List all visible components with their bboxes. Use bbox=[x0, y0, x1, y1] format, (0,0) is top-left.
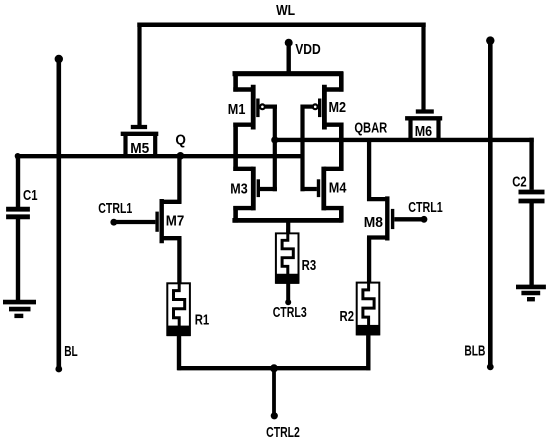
transistor M5 gate bar bbox=[131, 125, 147, 129]
svg-text:BLB: BLB bbox=[464, 343, 485, 359]
svg-text:M4: M4 bbox=[329, 180, 347, 196]
wire WL right vertical to M6 gate bbox=[421, 23, 425, 114]
svg-text:R1: R1 bbox=[195, 313, 210, 329]
wire R3 stem bbox=[286, 218, 290, 234]
wire right rail lower bbox=[339, 206, 344, 223]
wire WL left vertical to M5 gate bbox=[137, 23, 141, 128]
svg-text:C1: C1 bbox=[23, 188, 38, 204]
ground C2 bar3 bbox=[527, 297, 535, 301]
wire M5 left lead bbox=[123, 134, 127, 156]
wire M8 bottom lead bbox=[367, 235, 387, 239]
svg-text:Q: Q bbox=[175, 132, 186, 148]
wire R3 bottom lead bbox=[286, 283, 290, 302]
wire BL vertical bbox=[56, 59, 61, 369]
transistor M1 channel bbox=[251, 85, 256, 130]
wire WL horizontal bbox=[137, 22, 425, 27]
wire M8 source vertical to R2 bbox=[367, 238, 371, 284]
wire CTRL2 stem bbox=[272, 368, 276, 415]
node CTRL2 junction dot bbox=[270, 364, 278, 372]
wire left rail lower bbox=[233, 206, 238, 223]
wire left rail mid bbox=[233, 123, 238, 172]
wire M2 source lead bbox=[324, 87, 343, 91]
wire cross-couple vertical Q-to-M2/M4 gates bbox=[300, 105, 304, 192]
wire BLB vertical bbox=[488, 41, 493, 367]
wire M4 top lead bbox=[324, 167, 344, 171]
node QBAR junction dot bbox=[271, 136, 278, 143]
memristor R3 body bbox=[276, 233, 299, 283]
transistor M2 gate bar bbox=[318, 99, 321, 118]
wire M8 top lead bbox=[367, 197, 387, 201]
node CTRL1 left dot bbox=[110, 219, 117, 226]
wire M3 bottom lead bbox=[233, 206, 253, 210]
transistor M4 gate bar bbox=[317, 179, 320, 197]
svg-text:M5: M5 bbox=[130, 141, 149, 157]
wire C2 ground lead bbox=[529, 201, 533, 286]
svg-text:CTRL2: CTRL2 bbox=[266, 425, 300, 441]
svg-text:R2: R2 bbox=[340, 309, 355, 325]
transistor M6 channel bbox=[405, 116, 442, 120]
wire M4 bottom lead bbox=[324, 206, 344, 210]
transistor M8 gate bar bbox=[391, 209, 394, 229]
svg-text:M7: M7 bbox=[166, 214, 185, 230]
transistor M6 gate bar bbox=[416, 109, 434, 113]
ground C1 bar2 bbox=[9, 307, 31, 312]
svg-text:M2: M2 bbox=[329, 100, 347, 116]
wire left rail upper bbox=[233, 72, 238, 92]
node BL top dot bbox=[55, 55, 63, 63]
wire M3 top lead bbox=[233, 167, 253, 171]
capacitor C1 top plate bbox=[6, 207, 30, 212]
capacitor C2 top plate bbox=[519, 190, 545, 195]
wire M8 drain vertical from QBAR bbox=[367, 140, 371, 201]
node VDD dot bbox=[285, 39, 293, 47]
wire M7 gate lead bbox=[114, 220, 156, 224]
transistor M1 gate bubble bbox=[260, 104, 265, 109]
svg-text:CTRL3: CTRL3 bbox=[273, 305, 307, 321]
wire M7 drain vertical from Q bbox=[177, 156, 181, 203]
wire M8 gate lead bbox=[394, 217, 424, 221]
node BLB bottom dot bbox=[487, 364, 494, 371]
transistor M7 gate bar bbox=[155, 212, 158, 232]
transistor M3 gate bar bbox=[257, 179, 260, 197]
memristor R1 zigzag bbox=[174, 278, 185, 327]
wire R2 bottom vertical bbox=[366, 335, 370, 370]
svg-text:R3: R3 bbox=[302, 258, 317, 274]
ground C1 bar1 bbox=[3, 300, 36, 305]
node CTRL2 end dot bbox=[271, 412, 278, 419]
svg-text:CTRL1: CTRL1 bbox=[98, 201, 132, 217]
svg-text:M1: M1 bbox=[228, 102, 246, 118]
transistor M7 channel bbox=[159, 199, 163, 243]
wire M3 gate lead bbox=[260, 187, 277, 191]
wire C1 ground lead bbox=[16, 217, 20, 301]
transistor M8 channel bbox=[385, 196, 389, 240]
wire M2 gate lead bbox=[301, 104, 313, 108]
wire M4 gate lead bbox=[301, 187, 317, 191]
memristor R2 zigzag bbox=[363, 278, 374, 327]
ground C1 bar3 bbox=[14, 314, 23, 318]
wire M1 source lead bbox=[233, 87, 253, 91]
transistor M5 channel bbox=[121, 132, 159, 136]
wire M7 source vertical to R1 bbox=[177, 238, 181, 284]
memristor R1 body bbox=[167, 283, 190, 336]
node BL bottom dot bbox=[55, 366, 62, 373]
wire VDD stem bbox=[287, 43, 291, 76]
wire cross-couple vertical QBAR-to-M1/M3 gates bbox=[273, 105, 277, 192]
wire right rail upper bbox=[339, 72, 344, 92]
node BLB top dot bbox=[486, 36, 494, 44]
wire M2 drain lead bbox=[324, 122, 343, 126]
transistor M1 gate bar bbox=[256, 99, 259, 118]
svg-text:M8: M8 bbox=[364, 215, 383, 231]
svg-text:BL: BL bbox=[64, 344, 78, 360]
capacitor C2 bottom plate bbox=[519, 199, 545, 204]
transistor M3 channel bbox=[251, 167, 256, 211]
svg-text:C2: C2 bbox=[512, 174, 527, 190]
node Q dot bbox=[177, 152, 185, 160]
node CTRL1 right dot bbox=[421, 216, 428, 223]
wire C1 top lead bbox=[16, 154, 20, 207]
wire CTRL2 bottom line bbox=[177, 366, 370, 370]
svg-text:VDD: VDD bbox=[295, 42, 321, 58]
wire inverter bottom rail bbox=[232, 218, 342, 223]
wire M1 gate lead bbox=[265, 104, 277, 108]
svg-text:M6: M6 bbox=[415, 124, 432, 140]
memristor R2 body bbox=[356, 283, 379, 336]
svg-text:M3: M3 bbox=[230, 181, 247, 197]
wire M7 bottom lead bbox=[162, 236, 182, 240]
transistor M4 channel bbox=[321, 167, 326, 211]
wire M1 drain lead bbox=[233, 122, 253, 126]
wire right rail mid bbox=[339, 123, 344, 172]
svg-text:QBAR: QBAR bbox=[354, 121, 387, 137]
memristor R3 zigzag bbox=[282, 229, 293, 276]
wire VDD rail bbox=[233, 71, 344, 76]
wire M6 left lead bbox=[408, 118, 412, 140]
transistor M2 channel bbox=[322, 85, 327, 130]
wire R1 bottom vertical bbox=[177, 336, 181, 370]
wire Q row bbox=[15, 154, 304, 158]
wire M6 right lead bbox=[436, 118, 440, 140]
node CTRL3 dot bbox=[285, 299, 291, 305]
capacitor C1 bottom plate bbox=[6, 214, 30, 219]
node C1 corner dot bbox=[15, 153, 21, 159]
wire M7 top lead bbox=[162, 200, 182, 204]
wire QBAR row bbox=[273, 138, 534, 142]
wire C2 top lead bbox=[529, 138, 533, 190]
svg-text:CTRL1: CTRL1 bbox=[408, 200, 443, 216]
ground C2 bar1 bbox=[516, 285, 546, 290]
transistor M2 gate bubble bbox=[313, 104, 318, 109]
wire M5 right lead bbox=[153, 134, 157, 156]
svg-text:WL: WL bbox=[276, 3, 295, 19]
ground C2 bar2 bbox=[521, 291, 540, 296]
